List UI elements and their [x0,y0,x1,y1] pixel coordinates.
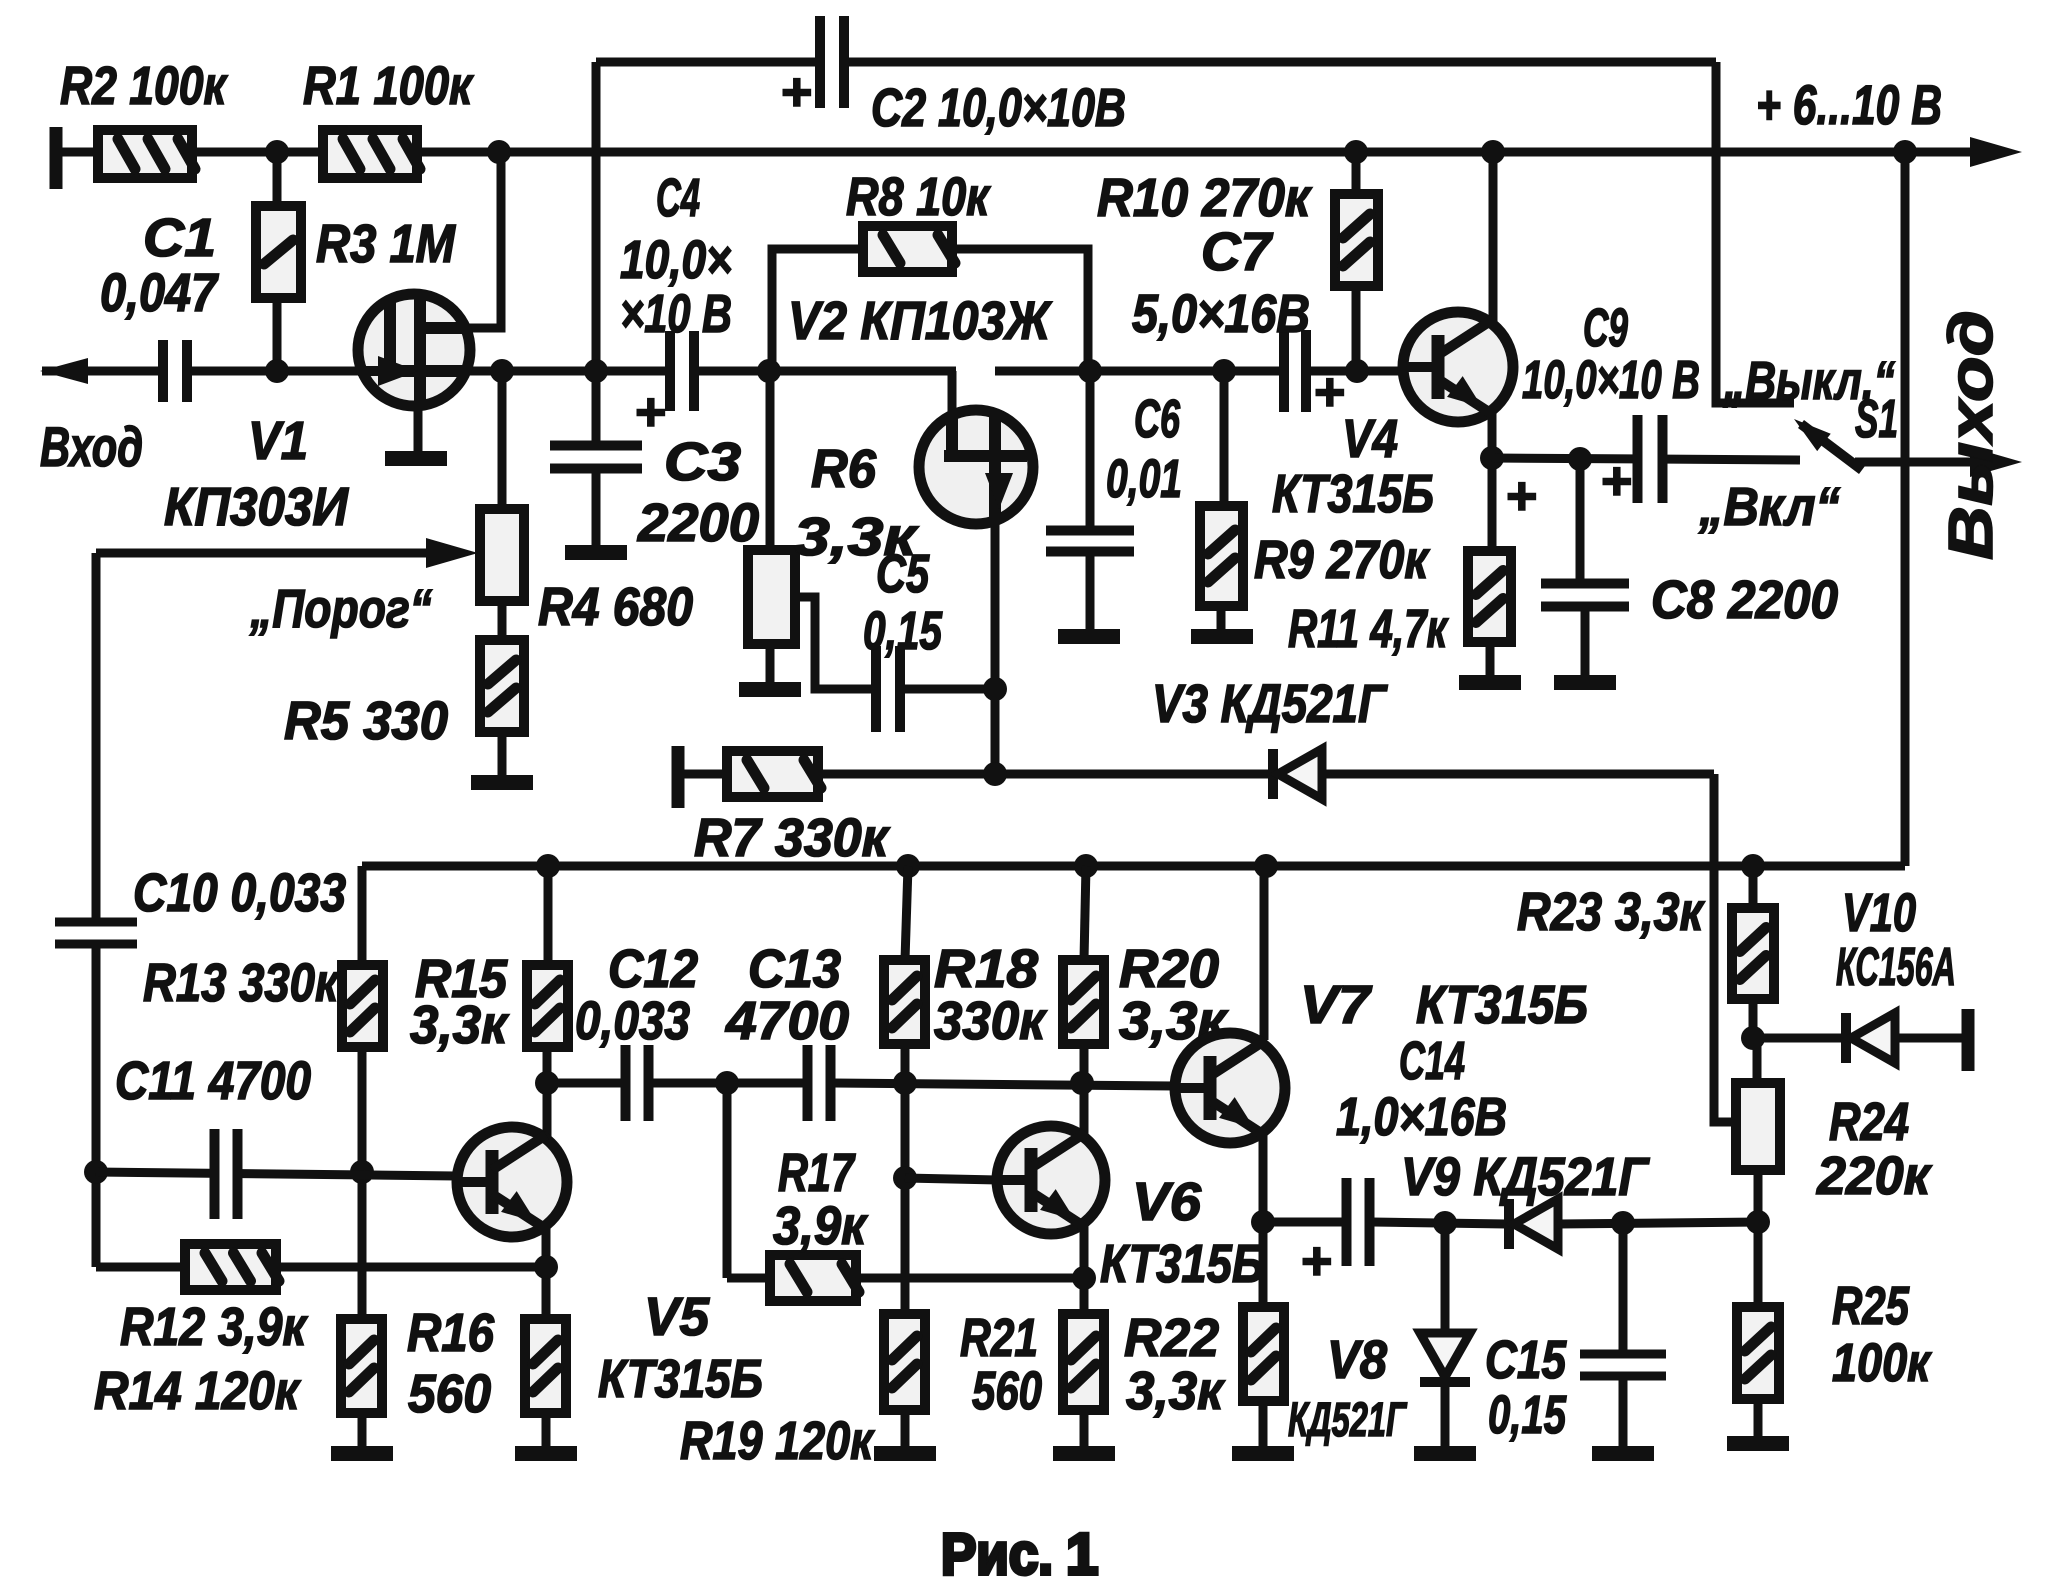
wire R6 ground stub [766,644,775,682]
wire R5 ground stub [498,732,507,775]
ground R6 [739,682,801,697]
label 3,3к of R15 [410,995,509,1055]
label R2 100к [60,56,228,116]
resistor R23 [1732,908,1774,999]
label КТ315Б of V6 [1100,1234,1264,1294]
svg-text:+: + [1300,1231,1332,1291]
wire R23 to R24 [1753,1038,1762,1083]
wire R9 riser [1220,371,1229,506]
svg-text:+: + [1600,451,1632,511]
svg-text:×10 В: ×10 В [620,284,732,344]
label R24 [1829,1092,1909,1152]
node R2-R3 junction [265,140,289,164]
svg-text:0,01: 0,01 [1106,449,1182,509]
wire right rail vertical [1901,152,1910,866]
capacitor C11 [210,1129,243,1219]
capacitor C2 [815,16,849,108]
label C4 [656,168,700,228]
label 0,047 [100,263,220,323]
svg-text:R4 680: R4 680 [538,577,693,637]
ground R21 [874,1446,936,1461]
label Вкл [1698,477,1840,537]
wire R23 bottom stub [1749,999,1758,1038]
wire left branch vertical upper [92,553,101,922]
resistor R13 [342,965,383,1047]
svg-text:+: + [1313,362,1345,422]
wire Porog wiper [96,549,452,558]
arrow Porog wiper into R4 [426,538,478,568]
label R20 [1119,939,1219,999]
capacitor C7 [1279,330,1311,412]
resistor R3 [256,206,301,298]
diode V3 (KD521G) [1268,749,1322,799]
svg-text:Вход: Вход [40,415,143,478]
wire V2 gate stub [948,371,957,412]
svg-text:V1: V1 [248,411,308,471]
wire R9 ground stub [1217,606,1226,629]
label C10 0,033 [133,863,346,923]
label КС156А [1836,937,1956,997]
wire C14 to V9 [1372,1222,1506,1224]
node V4 emitter junction [1480,446,1504,470]
wire R25 ground stub [1754,1399,1763,1436]
svg-text:3,3к: 3,3к [1126,1361,1225,1421]
wire R17 left lead [727,1274,770,1283]
svg-text:C7: C7 [1201,222,1274,282]
label + of C14 [1300,1231,1332,1291]
wire top bus y=62 [596,58,1716,67]
svg-text:R21: R21 [960,1308,1038,1368]
label R12 3,9к [120,1297,308,1357]
svg-text:Рис.: Рис. [941,1522,1053,1587]
label 10,0x [620,230,732,290]
variable resistor R24 [1736,1083,1780,1170]
node R24-R25 junction [1746,1210,1770,1234]
label C5 [876,544,930,604]
wire V5 emitter [542,1222,551,1319]
label V9 КД521Г [1401,1147,1651,1207]
svg-text:3,3к: 3,3к [410,995,509,1055]
node C6 junction [1078,359,1102,383]
svg-text:V2 КП103Ж: V2 КП103Ж [788,291,1053,351]
label V6 [1132,1172,1202,1232]
svg-text:V3 КД521Г: V3 КД521Г [1152,674,1388,734]
transistor V2 (KP103Zh) [919,410,1033,524]
resistor R16 [341,1319,382,1413]
resistor R2 [98,130,195,178]
wire R20 stub [1084,866,1086,960]
wire C3 riser [592,371,601,447]
label Выход (vertical) [1937,310,2006,560]
wire V4 emitter [1488,412,1497,551]
label R7 330к [694,808,891,868]
node right rail top junction [1893,140,1917,164]
svg-text:КД521Г: КД521Г [1288,1394,1408,1447]
label Порог [249,579,432,639]
wire R7 to V3 [818,770,1268,779]
svg-text:C5: C5 [876,544,930,604]
label V4 [1342,409,1398,469]
svg-text:R16: R16 [407,1303,495,1363]
label + of C9 [1600,451,1632,511]
label C8 2200 [1651,570,1838,630]
label + of C2 [780,62,812,122]
arrow power rail right [1970,137,2022,167]
wire V6 emitter [1080,1222,1089,1314]
svg-text:R24: R24 [1829,1092,1909,1152]
label C14 [1399,1031,1465,1091]
resistor R12 [185,1244,279,1290]
svg-text:R25: R25 [1832,1276,1910,1336]
variable resistor R4 [480,509,524,601]
diode V9 (KD521G) [1504,1199,1558,1249]
label КТ315Б of V7 [1416,975,1588,1035]
node V6 emitter junction [1072,1266,1096,1290]
node R20 top junction [1074,854,1098,878]
label C1 [143,208,216,268]
capacitor C10 [55,918,137,949]
wire R12 row [96,1263,185,1272]
wire V2 source vertical [991,520,1000,774]
label C11 4700 [115,1051,311,1111]
label V7 [1300,975,1373,1035]
node V5 emitter junction [534,1255,558,1279]
node C1-R3 junction [265,359,289,383]
label R6 [811,439,877,499]
svg-text:C8 2200: C8 2200 [1651,570,1838,630]
transistor V5 (KT315B) [457,1127,567,1237]
label Выкл [1723,351,1895,411]
wire R3 bottom stub [273,298,282,371]
wire C3 ground stub [592,467,601,545]
ground R19 [515,1446,577,1461]
transistor V6 (KT315B) [997,1126,1105,1234]
label 3,3к of R6 [794,507,919,567]
resistor R18 [884,960,925,1044]
node V2 source to R7 junction [983,762,1007,786]
wire V10 row [1753,1034,1968,1043]
terminal R7 left [672,746,685,808]
wire C12 row [547,1079,623,1088]
variable resistor R6 [748,550,795,644]
svg-text:C15: C15 [1485,1330,1567,1390]
node R10 bottom junction [1345,359,1369,383]
svg-text:0,15: 0,15 [1488,1385,1567,1445]
svg-text:V5: V5 [644,1287,710,1347]
node R9 junction [1212,359,1236,383]
wire V1 drain elbow [468,152,501,328]
wire R17 right lead [856,1274,1084,1283]
svg-text:C1: C1 [143,208,216,268]
svg-text:3,9к: 3,9к [773,1196,868,1256]
svg-text:R8 10к: R8 10к [846,167,991,227]
wire R23 stub [1749,866,1758,908]
label 220к [1816,1146,1932,1206]
node R6 riser junction [757,359,781,383]
wire power rail +6...10V (top, y=152) [56,148,1978,157]
caption Рис. 1 [941,1522,1098,1587]
label + of C4 [634,382,666,442]
wire C15 ground stub [1619,1377,1628,1446]
wire R4 riser [498,371,507,509]
label R22 [1124,1308,1219,1368]
resistor R25 [1737,1307,1779,1399]
svg-text:V10: V10 [1842,883,1916,943]
svg-text:R22: R22 [1124,1308,1219,1368]
capacitor C6 [1046,526,1134,557]
label R11 4,7к [1288,599,1449,659]
capacitor C1 [158,340,192,402]
resistor R21 [884,1314,925,1410]
label C15 [1485,1330,1567,1390]
svg-text:„Вкл“: „Вкл“ [1698,477,1840,537]
svg-text:R17: R17 [778,1143,856,1203]
svg-text:R20: R20 [1119,939,1219,999]
wire C12-C13 row [651,1079,806,1088]
label x10В [620,284,732,344]
svg-text:C13: C13 [748,939,841,999]
svg-text:R5 330: R5 330 [284,691,448,751]
svg-text:R2 100к: R2 100к [60,56,228,116]
label R25 [1832,1276,1910,1336]
wire R15 stub [544,866,553,965]
svg-text:4700: 4700 [725,991,849,1051]
label R14 120к [94,1361,301,1421]
node V7 emitter junction [1251,1210,1275,1234]
svg-text:КТ315Б: КТ315Б [1272,464,1434,524]
label V1 [248,411,308,471]
wire lower bus y=866 [362,862,1905,871]
label V10 [1842,883,1916,943]
wire V9 to R24 node [1558,1222,1760,1224]
capacitor C3 [550,441,642,474]
resistor R22a (V7 emitter) [1243,1307,1284,1401]
wire C6 riser [1086,371,1095,545]
label 2200 [637,493,759,553]
label R17 [778,1143,856,1203]
wire V8 stub [1441,1223,1450,1333]
resistor R11 [1468,551,1511,642]
svg-text:V7: V7 [1300,975,1373,1035]
label V8 [1327,1330,1387,1390]
svg-text:1,0×16В: 1,0×16В [1336,1087,1507,1147]
label 4700 of C13 [725,991,849,1051]
diode V10 (KS156A) [1841,1013,1895,1063]
wire top bus right drop x=1716 [1716,62,1794,403]
node C5-V2 junction [983,677,1007,701]
wire R3 top stub [273,152,282,206]
diode V8 (KD521G) pointing down [1420,1333,1470,1387]
label КТ315Б of V5 [598,1349,763,1409]
label C3 [664,432,741,492]
node C8 junction [1568,447,1592,471]
node R18 top junction [896,854,920,878]
svg-text:1: 1 [1066,1522,1098,1587]
svg-text:560: 560 [408,1364,491,1424]
svg-text:0,047: 0,047 [100,263,220,323]
svg-text:+: + [780,62,812,122]
node V10 junction [1741,1026,1765,1050]
node R1 right junction [487,140,511,164]
wire output line [1855,458,1978,467]
svg-text:560: 560 [972,1361,1042,1421]
svg-text:R11 4,7к: R11 4,7к [1288,599,1449,659]
capacitor C15 [1580,1350,1666,1381]
svg-text:R14 120к: R14 120к [94,1361,301,1421]
node V7 collector junction [1254,854,1278,878]
node C13 left junction [715,1071,739,1095]
resistor R9 [1200,506,1243,606]
ground V7 emitter [1232,1446,1294,1461]
node V6 base junction [893,1166,917,1190]
resistor R15 [527,965,568,1047]
svg-text:C3: C3 [664,432,741,492]
ground C6 [1058,629,1120,644]
resistor R8 [863,226,955,272]
label R16 [407,1303,495,1363]
wire C2 riser x=596 [592,62,601,371]
resistor R22 [1063,1314,1104,1410]
capacitor C5 [871,646,905,732]
node R10 top junction [1344,140,1368,164]
wire R15 to V5 collector [543,1047,552,1140]
svg-text:C9: C9 [1583,298,1628,358]
wire C11 row [96,1172,457,1176]
svg-text:V9 КД521Г: V9 КД521Г [1401,1147,1651,1207]
wire left branch vertical lower [92,944,101,1267]
label R21 [960,1308,1038,1368]
capacitor C13 [803,1045,836,1121]
node R23 top junction [1741,854,1765,878]
node R20 bottom junction [1070,1071,1094,1095]
terminal V10 right [1962,1009,1975,1071]
label V2 КП103Ж [788,291,1053,351]
wire R18 riser to base node [901,1044,910,1314]
svg-text:R12 3,9к: R12 3,9к [120,1297,308,1357]
label 5,0x16В [1132,284,1310,344]
svg-text:330к: 330к [934,991,1047,1051]
svg-text:R10 270к: R10 270к [1097,168,1312,228]
wire R8 right elbow [952,249,1088,371]
svg-text:„Порог“: „Порог“ [249,579,432,639]
svg-text:+ 6...10 В: + 6...10 В [1756,73,1942,136]
svg-text:10,0×: 10,0× [620,230,732,290]
ground C8 [1554,675,1616,690]
wire R13 to base node [358,1047,367,1319]
arrow S1 lever tip [1787,410,1830,451]
wire lower bus left drop to R13 [358,866,367,965]
capacitor C8 [1541,579,1629,612]
wire C8 riser [1576,459,1585,583]
capacitor C12 [621,1045,654,1121]
svg-text:R3 1M: R3 1M [316,214,456,274]
wire V6 base lead [905,1178,998,1180]
node V4 collector junction [1481,140,1505,164]
resistor R7 [727,751,821,797]
arrow output right [1970,447,2022,477]
label V3 КД521Г [1152,674,1388,734]
wire R8 left elbow [772,249,863,371]
label C9 [1583,298,1628,358]
wire V4 collector [1489,152,1498,322]
node C11 left junction [84,1160,108,1184]
wire C8 ground stub [1581,606,1590,675]
label R5 330 [284,691,448,751]
svg-text:C12: C12 [608,939,698,999]
svg-text:0,033: 0,033 [575,991,690,1051]
wire V3 branch down to R24 wiper [1714,774,1736,1122]
ground R9 [1191,629,1253,644]
label 3,3к of R22 [1126,1361,1225,1421]
svg-text:5,0×16В: 5,0×16В [1132,284,1310,344]
label C13 [748,939,841,999]
label 560 of R21 [972,1361,1042,1421]
wire R22 ground stub [1080,1410,1089,1446]
svg-text:V4: V4 [1342,409,1398,469]
svg-text:2200: 2200 [637,493,759,553]
svg-text:C11 4700: C11 4700 [115,1051,311,1111]
svg-text:V6: V6 [1132,1172,1202,1232]
svg-text:+: + [1505,466,1537,526]
label R23 3,3к [1517,882,1705,942]
wire C9 line [1492,458,1800,460]
label R8 10к [846,167,991,227]
ground R25 [1727,1436,1789,1451]
label R18 [934,939,1038,999]
svg-text:100к: 100к [1832,1333,1932,1393]
wire R4-R5 link [498,601,507,640]
wire R20 to V6 collector [1080,1044,1089,1135]
svg-text:R1 100к: R1 100к [303,56,474,116]
label C12 [608,939,698,999]
label R15 [415,949,508,1009]
node R15 top junction [536,854,560,878]
label R3 1M [316,214,456,274]
wire R6 riser [766,371,775,550]
svg-text:+: + [634,382,666,442]
label 3,3к of R20 [1119,991,1229,1051]
svg-text:C2 10,0×10В: C2 10,0×10В [871,78,1126,138]
wire R10 bottom stub [1352,286,1361,371]
wire R16 ground stub [358,1413,367,1446]
ground V1 source [385,451,447,466]
label 330к of R18 [934,991,1047,1051]
resistor R1 [323,130,420,178]
node V8 junction [1433,1211,1457,1235]
label + of C7 [1313,362,1345,422]
wire C13 right row [833,1083,1176,1086]
ground R22 [1053,1446,1115,1461]
label R4 680 [538,577,693,637]
wire R10 top stub [1352,152,1361,194]
svg-text:Выход: Выход [1937,310,2006,560]
svg-text:КП303И: КП303И [164,477,349,537]
svg-text:10,0×10 В: 10,0×10 В [1522,350,1700,410]
wire C14 row [1263,1218,1343,1227]
svg-text:C10 0,033: C10 0,033 [133,863,346,923]
resistor R10 [1335,194,1378,286]
label S1 [1855,389,1898,449]
wire signal line mid [995,367,1403,376]
wire R12 to V5 emitter [276,1263,546,1272]
capacitor C4 [665,331,699,411]
label 0,033 of C12 [575,991,690,1051]
wire R7 lead left [684,770,727,779]
node C2/C3 junction [584,359,608,383]
arrow input (points left) [40,358,88,384]
svg-text:КТ315Б: КТ315Б [1416,975,1588,1035]
label 1,0x16В [1336,1087,1507,1147]
